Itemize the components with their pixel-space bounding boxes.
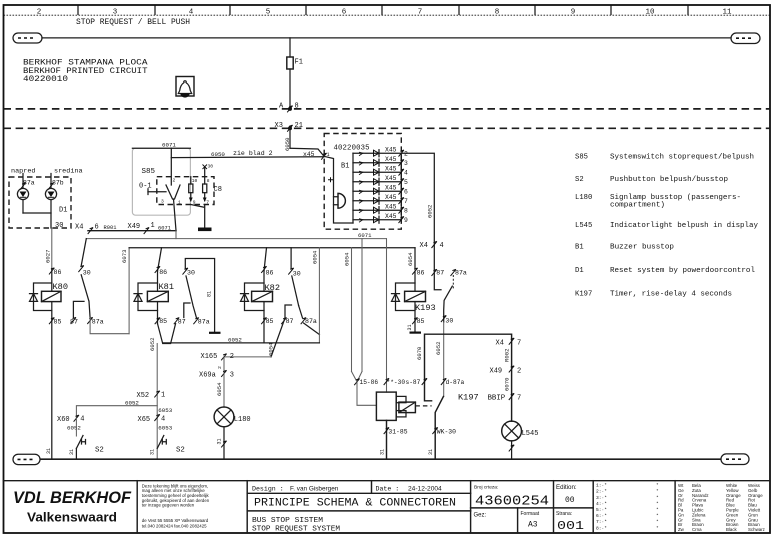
supply terminal pill left <box>13 33 42 43</box>
legend table <box>575 153 759 298</box>
svg-text:24-12-2004: 24-12-2004 <box>408 486 442 493</box>
diode row X45 2 <box>353 146 408 157</box>
svg-text:L545: L545 <box>575 222 592 230</box>
svg-text:Pushbutton belpush/busstop: Pushbutton belpush/busstop <box>610 176 728 184</box>
svg-text:6052: 6052 <box>67 425 81 432</box>
supply terminal pill right <box>731 33 760 44</box>
svg-text:31: 31 <box>407 324 413 330</box>
text legal small print <box>142 483 210 528</box>
svg-text:*: * <box>656 495 659 501</box>
svg-text:7: 7 <box>517 395 521 403</box>
text BERKHOF block <box>23 59 148 84</box>
svg-text:86: 86 <box>417 270 425 277</box>
svg-text:X49: X49 <box>490 368 503 376</box>
svg-text:81: 81 <box>207 291 213 297</box>
svg-text:31-85: 31-85 <box>388 428 407 435</box>
svg-text:10: 10 <box>645 9 655 17</box>
resistor in S85 <box>189 177 198 206</box>
svg-text:B1: B1 <box>341 163 349 171</box>
ground bus terminal pill right <box>721 454 749 465</box>
svg-text:X45: X45 <box>385 194 397 201</box>
node X4 7 <box>496 338 522 362</box>
svg-text:X60: X60 <box>57 416 70 424</box>
svg-text:6054: 6054 <box>216 382 223 396</box>
svg-text:Design :: Design : <box>252 486 284 493</box>
diode row X45 8 <box>353 203 408 214</box>
svg-text:ter inzage gegeven worden: ter inzage gegeven worden <box>142 503 195 508</box>
svg-text:43600254: 43600254 <box>475 494 549 510</box>
svg-text:6054: 6054 <box>407 252 414 266</box>
svg-text:2: 2 <box>217 366 223 369</box>
svg-text:X45: X45 <box>385 156 397 163</box>
wire L545 to bus <box>509 441 514 459</box>
svg-text:F1: F1 <box>295 59 303 67</box>
svg-text:31: 31 <box>217 438 223 444</box>
diode row X45 3 <box>353 156 408 167</box>
svg-text:30: 30 <box>445 318 453 325</box>
svg-text:30: 30 <box>208 164 214 170</box>
svg-text:Strana:: Strana: <box>556 511 572 517</box>
svg-text:10: 10 <box>192 178 198 184</box>
wire d-87a drop <box>435 322 465 397</box>
svg-text:87a: 87a <box>305 318 317 325</box>
svg-text:*: * <box>656 525 659 531</box>
svg-text:K193: K193 <box>415 303 436 313</box>
diode row X45 6 <box>353 184 408 195</box>
svg-text:compartment): compartment) <box>610 202 665 210</box>
svg-text:15-86: 15-86 <box>360 379 379 386</box>
node X49 2 <box>490 366 522 391</box>
svg-text:6052: 6052 <box>125 399 139 406</box>
wire K82 87 to lamp node <box>268 318 285 357</box>
svg-text:7: 7 <box>418 9 423 17</box>
wire into buzzer bus <box>324 156 353 223</box>
svg-text:2: 2 <box>230 353 234 361</box>
svg-text:S2: S2 <box>95 447 104 455</box>
wire L180 to ground bus <box>217 427 227 459</box>
svg-text:C8: C8 <box>214 186 222 194</box>
svg-text:6: 6 <box>404 189 408 196</box>
svg-text:Schwarz: Schwarz <box>748 527 765 532</box>
printed circuit box 40220035 dashed <box>324 134 401 230</box>
svg-text:001: 001 <box>557 519 584 533</box>
svg-text:3: 3 <box>113 9 118 17</box>
svg-text:5:·*: 5:·* <box>596 507 607 513</box>
wire 6054 short riser <box>311 248 319 343</box>
svg-text:87: 87 <box>178 319 186 326</box>
svg-text:6054: 6054 <box>311 250 318 264</box>
wire 6054 pair to 15-86 funnel <box>344 239 379 406</box>
svg-text:6070: 6070 <box>416 346 423 360</box>
pushbutton S2 left <box>69 436 104 460</box>
svg-text:Date :: Date : <box>376 486 400 493</box>
svg-text:L180: L180 <box>234 416 251 424</box>
wire 6052 from X45 2 to X4 4 <box>401 153 434 271</box>
relay K82 contact 30 87 87a <box>281 248 319 335</box>
svg-text:7: 7 <box>206 200 209 206</box>
svg-text:87a: 87a <box>198 319 210 326</box>
svg-text:**-30: **-30 <box>387 379 406 386</box>
svg-text:4: 4 <box>440 242 444 250</box>
pushbutton S2 right <box>150 436 185 456</box>
svg-text:WK-30: WK-30 <box>437 428 456 435</box>
svg-text:85: 85 <box>54 318 62 325</box>
svg-text:sredina: sredina <box>54 168 83 176</box>
fuse F1 <box>287 38 303 109</box>
svg-text:S2: S2 <box>176 447 185 455</box>
svg-text:30: 30 <box>83 269 91 276</box>
svg-text:6: 6 <box>95 224 99 232</box>
svg-text:6070: 6070 <box>503 377 510 391</box>
svg-text:D1: D1 <box>59 207 67 215</box>
svg-text:R002: R002 <box>503 349 510 362</box>
svg-text:L180: L180 <box>575 194 592 202</box>
svg-text:86: 86 <box>54 269 62 276</box>
svg-text:*: * <box>656 519 659 525</box>
wire K197 31-85 to bus <box>379 420 407 459</box>
relay K193 contact 87 87a 30 <box>432 269 467 324</box>
svg-text:40220035: 40220035 <box>334 145 370 153</box>
svg-text:2: 2 <box>37 9 42 17</box>
svg-text:3: 3 <box>404 160 408 167</box>
svg-text:6053: 6053 <box>158 425 172 432</box>
wire K197 top frame to X4 7 <box>416 334 511 421</box>
svg-text:6053: 6053 <box>158 407 172 414</box>
ground bus terminal pill left <box>13 454 40 464</box>
wire +supply bus <box>42 37 731 39</box>
svg-text:4: 4 <box>404 170 408 177</box>
svg-text:6071: 6071 <box>358 232 372 239</box>
svg-text:S85: S85 <box>142 168 156 176</box>
dashed separator line 2 <box>4 127 771 129</box>
svg-text:6071: 6071 <box>158 226 171 232</box>
svg-text:31: 31 <box>69 449 75 455</box>
node X4 4 <box>420 241 444 249</box>
svg-text:2: 2 <box>173 178 176 184</box>
svg-text:1: 1 <box>151 222 155 230</box>
svg-text:X4: X4 <box>420 242 428 250</box>
svg-text:8:·*: 8:·* <box>596 525 607 531</box>
diode 87b <box>45 174 63 214</box>
relay K81 coil <box>134 248 174 325</box>
svg-text:BUS STOP SISTEM: BUS STOP SISTEM <box>252 517 323 525</box>
node X165 2 <box>201 353 272 361</box>
svg-text:11: 11 <box>722 9 732 17</box>
svg-text:21: 21 <box>295 122 303 130</box>
svg-text:Valkenswaard: Valkenswaard <box>27 511 117 525</box>
switch S85 actuator <box>148 148 181 230</box>
node X65 4 <box>138 407 173 432</box>
diode row X45 4 <box>353 165 408 176</box>
svg-text:86: 86 <box>159 269 167 276</box>
diode row X45 5 <box>353 175 408 186</box>
svg-text:3: 3 <box>161 199 164 205</box>
svg-text:87: 87 <box>286 318 294 325</box>
svg-text:Buzzer busstop: Buzzer busstop <box>610 244 674 252</box>
svg-text:7: 7 <box>517 340 521 348</box>
svg-text:X45: X45 <box>385 213 397 220</box>
svg-text:3: 3 <box>230 372 234 380</box>
relay K193 coil <box>392 248 436 334</box>
svg-text:X45: X45 <box>385 165 397 172</box>
diode row X45 9 <box>353 213 408 224</box>
svg-text:X52: X52 <box>137 392 150 400</box>
svg-text:4: 4 <box>80 415 84 423</box>
svg-text:tel.040 2082424 fax.040 208242: tel.040 2082424 fax.040 2082425 <box>142 523 207 528</box>
node A 8 <box>279 102 299 112</box>
svg-text:X165: X165 <box>201 353 218 361</box>
svg-text:B1: B1 <box>575 244 584 252</box>
svg-text:*: * <box>656 507 659 513</box>
relay K82 coil <box>241 248 280 343</box>
svg-text:Crna: Crna <box>692 527 702 532</box>
svg-text:6027: 6027 <box>45 250 52 263</box>
svg-text:85: 85 <box>159 318 167 325</box>
text K197 BBIP 7 <box>458 393 521 403</box>
switch S85 enclosure <box>132 148 190 215</box>
ruler column numbers <box>37 9 732 17</box>
svg-text:87a: 87a <box>92 319 104 326</box>
svg-text:Timer, rise-delay 4 seconds: Timer, rise-delay 4 seconds <box>610 291 732 299</box>
svg-text:31: 31 <box>150 449 156 455</box>
svg-text:85: 85 <box>266 318 274 325</box>
svg-text:8: 8 <box>207 178 210 184</box>
svg-text:6052: 6052 <box>427 205 434 218</box>
svg-text:31: 31 <box>379 449 385 455</box>
svg-text:6: 6 <box>342 9 347 17</box>
wire *-30 drop into K197 <box>384 239 421 393</box>
wire 6073 riser <box>121 248 129 334</box>
svg-text:d-87a: d-87a <box>446 379 465 386</box>
diode box D1 dashed <box>9 177 71 228</box>
svg-text:4: 4 <box>161 415 165 423</box>
svg-text:D1: D1 <box>575 267 584 275</box>
svg-text:9: 9 <box>404 217 408 224</box>
svg-text:6073: 6073 <box>121 250 128 263</box>
svg-text:0-1: 0-1 <box>139 183 152 191</box>
svg-text:87: 87 <box>70 319 78 326</box>
node X69a 3 <box>199 357 234 380</box>
svg-text:2: 2 <box>517 368 521 376</box>
svg-text:*: * <box>656 501 659 507</box>
svg-text:1:·*: 1:·* <box>596 483 607 489</box>
ground bus wire <box>40 458 721 460</box>
svg-text:de Vest 55 5555 XP Valkenswaar: de Vest 55 5555 XP Valkenswaard <box>142 518 209 523</box>
svg-text:87a: 87a <box>455 270 467 277</box>
svg-text:X45: X45 <box>385 146 397 153</box>
relay K80 contact 30 87 87a <box>70 239 129 334</box>
svg-text:X45: X45 <box>385 175 397 182</box>
wire 6050 drop from X3 <box>284 128 324 156</box>
svg-text:F. van Gisbergen: F. van Gisbergen <box>290 486 339 493</box>
svg-text:6054: 6054 <box>268 342 275 356</box>
node X3 21 <box>275 122 303 132</box>
pin 30 stub above C8 <box>203 164 214 177</box>
svg-text:Systemswitch stoprequest/belpu: Systemswitch stoprequest/belpush <box>610 153 754 161</box>
svg-text:*: * <box>656 489 659 495</box>
svg-text:R001: R001 <box>104 225 117 231</box>
wire D1 internal <box>23 213 51 228</box>
svg-text:6052: 6052 <box>228 337 242 344</box>
colour code table <box>678 483 765 532</box>
svg-text:STOP REQUEST SYSTEM: STOP REQUEST SYSTEM <box>252 526 340 534</box>
relay K81 contact 30 87 87a <box>174 259 221 334</box>
svg-text:1: 1 <box>178 200 181 206</box>
diode 87a <box>17 174 34 214</box>
relay K80 coil <box>30 268 68 459</box>
svg-text:87: 87 <box>436 270 444 277</box>
svg-text:86: 86 <box>266 270 274 277</box>
relay K81 contact V junction <box>158 324 176 344</box>
svg-text:40220010: 40220010 <box>23 75 68 84</box>
wire 6071 top <box>132 142 190 149</box>
wire X4 6 R001 X49 1 6071 <box>75 222 176 234</box>
svg-text:7:·*: 7:·* <box>596 519 607 525</box>
wire 6050 zie blad 2 <box>171 150 324 158</box>
timer K197 contact WK-30 <box>428 397 456 460</box>
switch S85 dashed box <box>157 177 214 205</box>
bell symbol <box>176 77 194 98</box>
dashed separator line 1 <box>4 108 771 110</box>
capacitor C8 branch <box>203 177 210 206</box>
svg-text:X3: X3 <box>275 122 283 130</box>
svg-text:X69a: X69a <box>199 372 216 380</box>
X45 collector vertical <box>400 153 402 220</box>
ground under S85 <box>191 205 212 232</box>
wire 6054 to L180 <box>216 374 224 408</box>
svg-text:00: 00 <box>565 496 575 505</box>
svg-text:6052: 6052 <box>149 338 156 351</box>
svg-text:X4: X4 <box>75 224 83 232</box>
svg-text:zie blad 2: zie blad 2 <box>233 150 273 157</box>
svg-text:30: 30 <box>293 271 301 278</box>
lamp L545 <box>502 421 539 441</box>
svg-text:5: 5 <box>266 9 271 17</box>
svg-text:STOP REQUEST / BELL PUSH: STOP REQUEST / BELL PUSH <box>76 18 190 27</box>
svg-text:A3: A3 <box>528 521 538 530</box>
svg-text:Black: Black <box>726 527 738 532</box>
svg-text:Formaat: Formaat <box>521 511 540 517</box>
svg-text:X45: X45 <box>385 203 397 210</box>
svg-text:8: 8 <box>295 102 299 110</box>
svg-text:Broj crteza:: Broj crteza: <box>474 485 498 491</box>
svg-text:2: 2 <box>404 151 408 158</box>
svg-text:30: 30 <box>55 222 63 230</box>
node X52 1 <box>137 391 166 400</box>
svg-text:4: 4 <box>189 9 194 17</box>
svg-text:4:·*: 4:·* <box>596 501 607 507</box>
wire 6052 horizontal <box>163 337 320 344</box>
diode bus vertical <box>352 153 354 223</box>
svg-text:Reset system by powerdoorcontr: Reset system by powerdoorcontrol <box>610 267 755 275</box>
svg-text:31: 31 <box>428 449 434 455</box>
svg-text:Indicatorlight belpush in disp: Indicatorlight belpush in display <box>610 222 759 230</box>
svg-text:6071: 6071 <box>162 142 176 149</box>
svg-text:1: 1 <box>161 391 165 399</box>
wire 6027 to K80 coil <box>45 228 52 269</box>
svg-text:85: 85 <box>417 318 425 325</box>
plus mark <box>328 177 333 182</box>
svg-text:3:·*: 3:·* <box>596 495 607 501</box>
svg-text:X49: X49 <box>128 223 141 231</box>
wire 6052 down to X52 <box>149 338 157 460</box>
buzzer B1 <box>334 163 350 209</box>
svg-text:L545: L545 <box>522 430 539 438</box>
svg-text:5: 5 <box>404 179 408 186</box>
svg-text:8: 8 <box>495 9 500 17</box>
svg-text:6:·*: 6:·* <box>596 513 607 519</box>
svg-text:6054: 6054 <box>344 252 351 266</box>
svg-text:7: 7 <box>404 198 408 205</box>
svg-text:S2: S2 <box>575 176 584 184</box>
svg-text:X45: X45 <box>385 184 397 191</box>
ruler column ticks <box>78 5 688 15</box>
svg-text:6050: 6050 <box>211 151 225 158</box>
numbered option list <box>596 483 659 532</box>
wire supply rail <box>129 247 415 249</box>
svg-text:X65: X65 <box>138 416 151 424</box>
svg-text:Gez:: Gez: <box>474 513 487 519</box>
wire 6071 gray bus <box>86 232 386 239</box>
svg-text:PRINCIPE SCHEMA & CONNECTOREN: PRINCIPE SCHEMA & CONNECTOREN <box>254 498 456 510</box>
svg-text:VDL BERKHOF: VDL BERKHOF <box>13 489 132 507</box>
svg-text:30: 30 <box>187 269 195 276</box>
svg-text:9: 9 <box>571 9 576 17</box>
svg-text:X4: X4 <box>496 340 504 348</box>
diode row X45 7 <box>353 194 408 205</box>
lamp L180 <box>214 407 251 427</box>
svg-text:*: * <box>656 513 659 519</box>
node X45 1 <box>303 151 330 160</box>
wire stem to bus <box>175 231 177 239</box>
svg-text:*: * <box>656 483 659 489</box>
svg-text:S85: S85 <box>575 153 588 161</box>
svg-text:BBIP: BBIP <box>488 395 506 403</box>
svg-text:K197: K197 <box>458 393 479 403</box>
wire X60 branch <box>57 399 157 436</box>
svg-text:x45: x45 <box>303 151 315 158</box>
svg-text:2:·*: 2:·* <box>596 489 607 495</box>
svg-text:6052: 6052 <box>435 342 442 355</box>
timer K197 block <box>376 392 431 420</box>
svg-text:s-87: s-87 <box>406 379 421 386</box>
svg-text:8: 8 <box>404 208 408 215</box>
svg-text:Edition:: Edition: <box>556 484 577 491</box>
svg-text:Zw: Zw <box>678 527 685 532</box>
title block frame <box>4 481 771 533</box>
svg-text:K197: K197 <box>575 291 592 299</box>
svg-text:31: 31 <box>46 448 52 454</box>
